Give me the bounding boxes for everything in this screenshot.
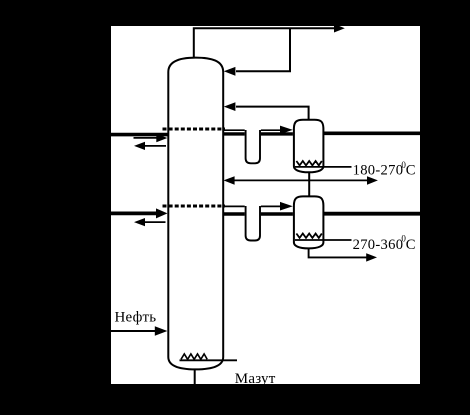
drawoff line to U-seal 2 (thin) (224, 205, 245, 207)
crude feed pipe (111, 330, 156, 332)
sidecut 2 arrowhead (366, 253, 377, 261)
inflow arrow 1 (134, 137, 158, 139)
U-seal 2 (246, 206, 260, 241)
overhead vapour pipe (194, 28, 336, 57)
svg-text:270-360: 270-360 (353, 237, 404, 253)
tray 2 (dashed) (163, 205, 226, 208)
pointer line 180-270 (295, 166, 352, 168)
thick line 2 right segments (224, 212, 245, 216)
pumparound feed 1 (thick) (111, 133, 168, 137)
pumparound feed 2 (thick) (111, 211, 161, 215)
bottoms drain pipe (194, 369, 196, 384)
inflow arrowhead 2 (156, 208, 168, 218)
canvas (111, 26, 420, 384)
column bottom zigzag (181, 354, 207, 359)
U-seal 1 (246, 130, 260, 163)
reflux pipe (236, 28, 290, 71)
sidecut 1 double-arrow line (234, 179, 368, 181)
drawoff arrow 2 (138, 221, 166, 223)
svg-text:С: С (406, 163, 416, 179)
svg-text:180-270: 180-270 (353, 163, 404, 179)
drawoff arrow 1 (138, 145, 166, 147)
stripper S1 (294, 120, 324, 173)
stripper 1 vapour return pipe (236, 107, 309, 121)
reflux arrowhead (224, 67, 236, 76)
stripper 2 zigzag (296, 234, 321, 238)
svg-text:Мазут: Мазут (235, 371, 276, 387)
stripper 2 inlet arrowhead (280, 202, 293, 211)
column bottom line (180, 359, 238, 361)
stripper 1 inlet arrowhead (280, 126, 293, 135)
stripper S2 (294, 196, 324, 248)
column K1 (168, 58, 223, 370)
thick line 1 right segments (224, 132, 245, 135)
stripper 1 zigzag (296, 161, 321, 165)
svg-text:Нефть: Нефть (115, 309, 157, 325)
crude feed arrowhead (155, 326, 168, 336)
pointer line 270-360 (295, 239, 352, 241)
vapour return arrowhead (224, 102, 236, 111)
drawoff line to U-seal 1 (thin) (224, 129, 245, 131)
inter-stripper pipe (308, 172, 310, 197)
tray 1 (dashed) (163, 128, 226, 131)
svg-text:С: С (406, 237, 416, 253)
overhead arrowhead (334, 24, 345, 33)
sidecut 2 product pipe (309, 248, 367, 257)
